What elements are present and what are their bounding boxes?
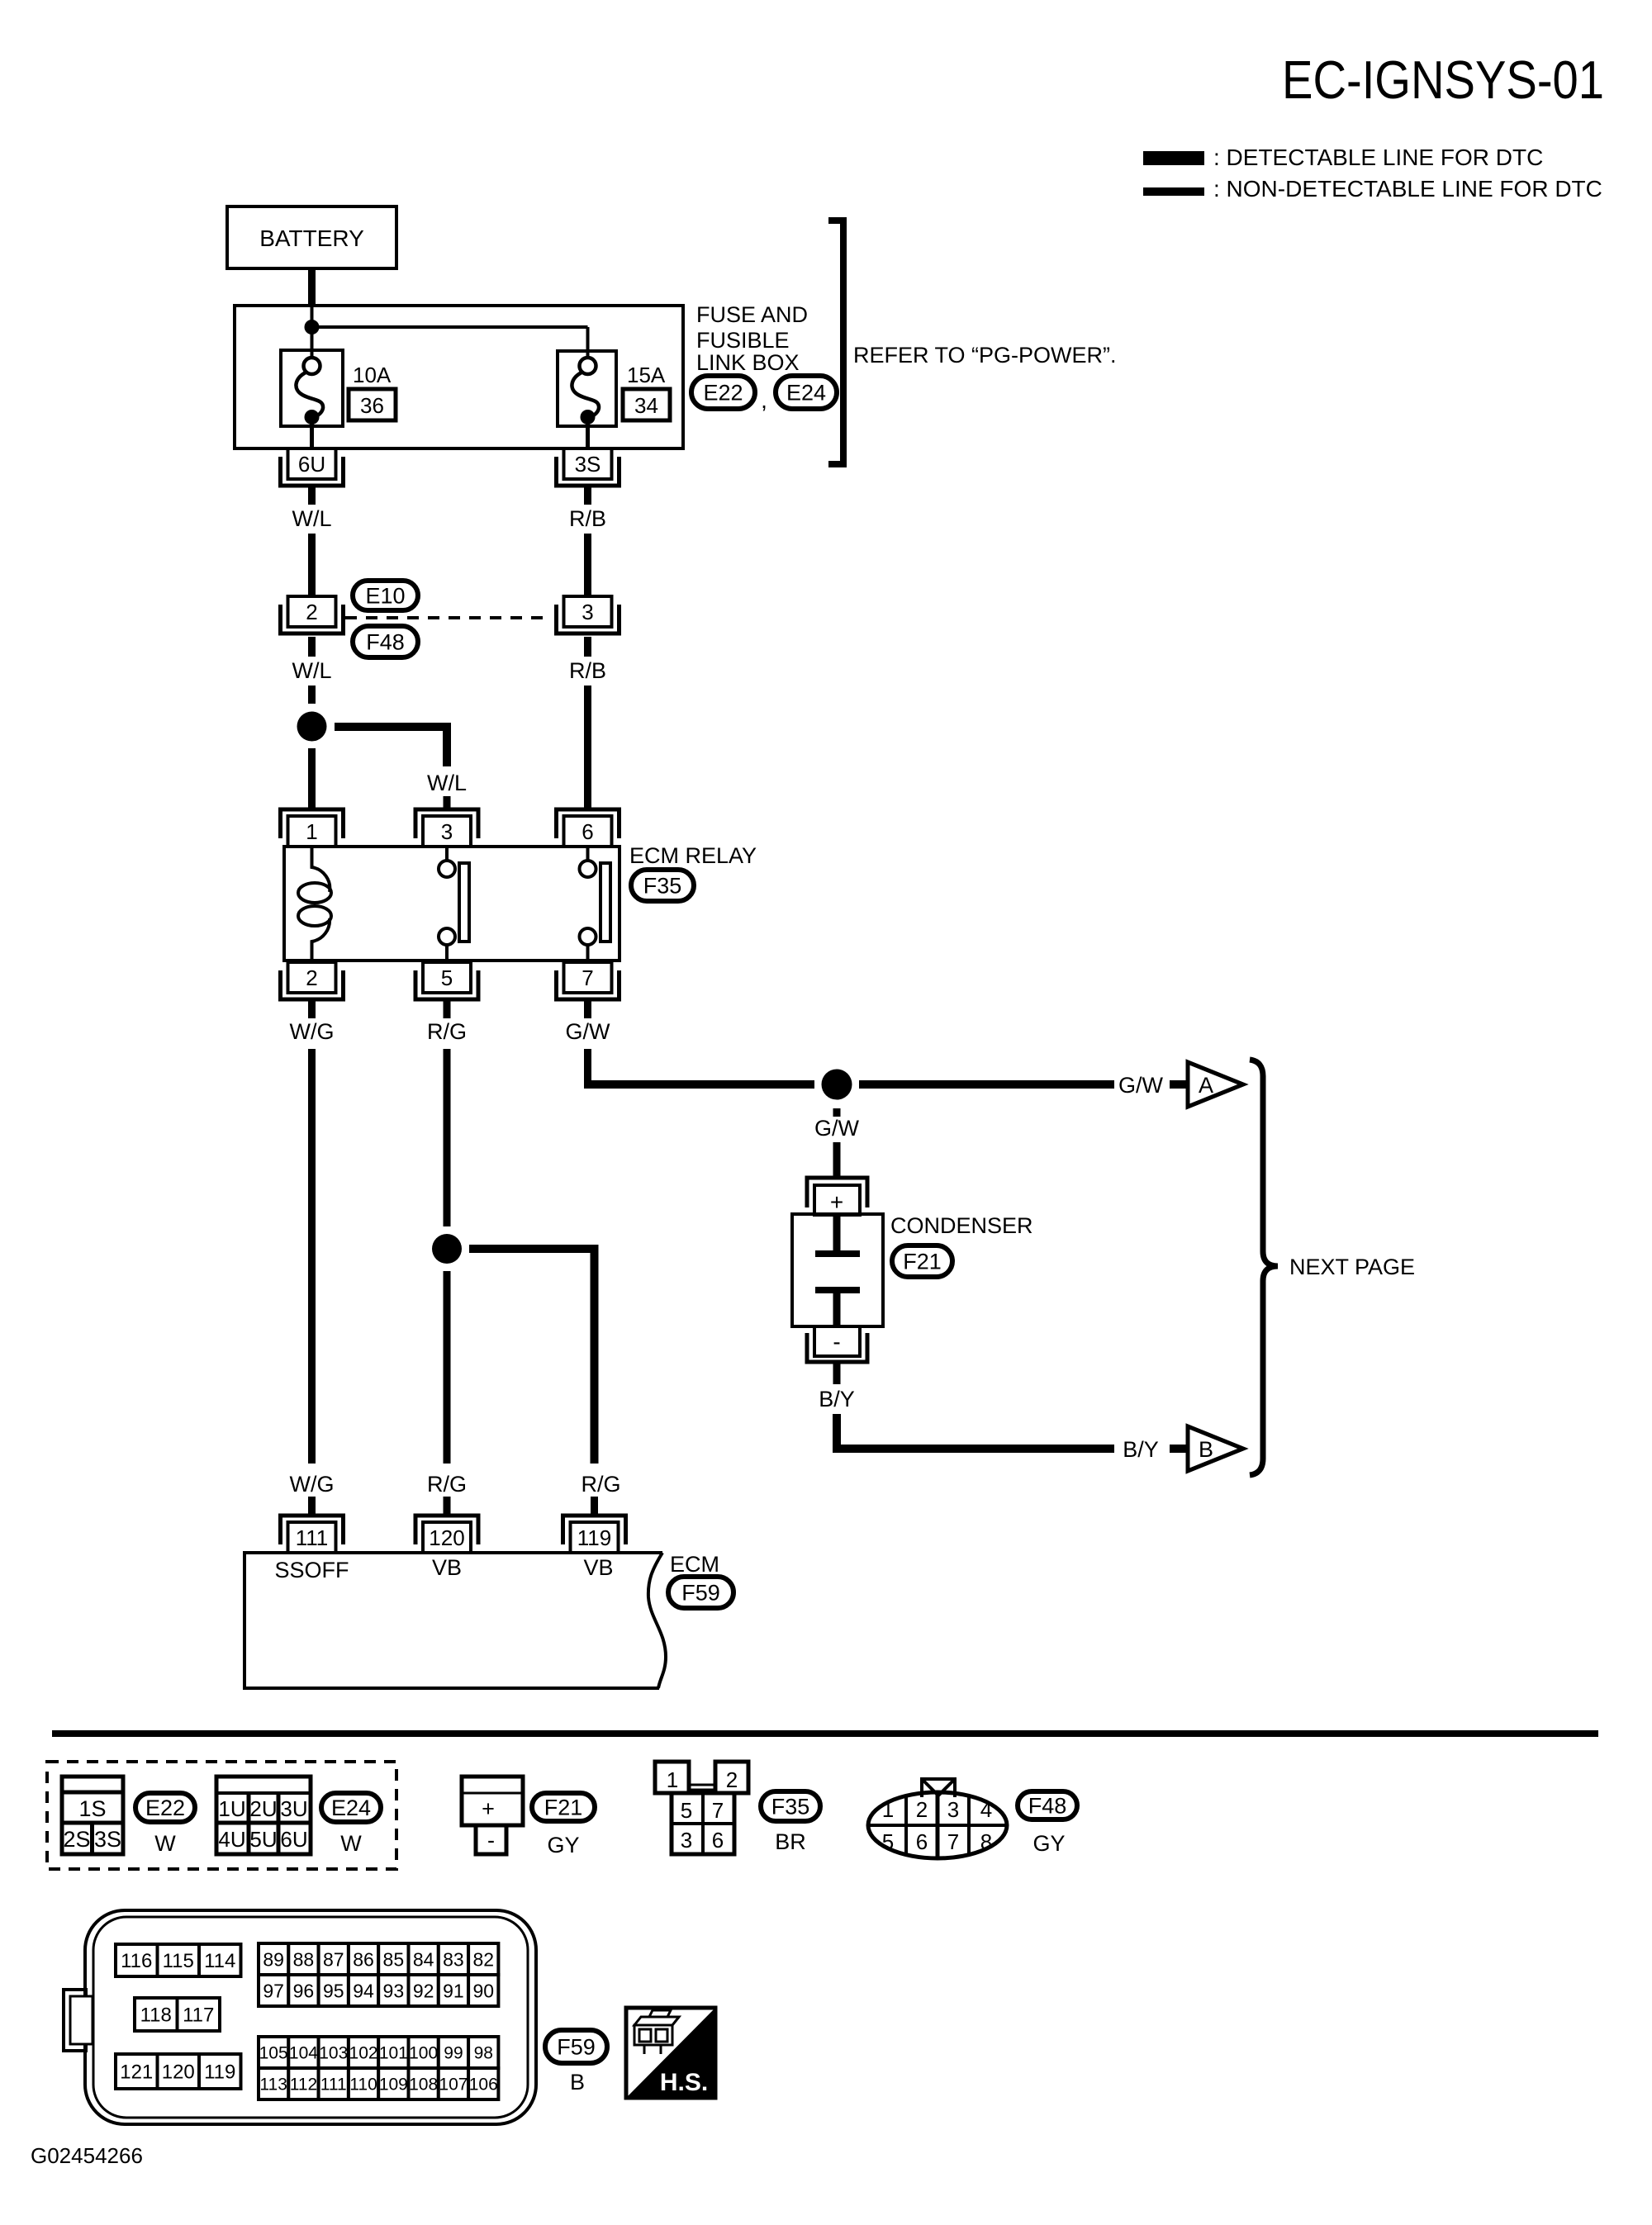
svg-text:108: 108 (409, 2076, 438, 2095)
dashed connector link line (345, 616, 552, 619)
svg-text:W/L: W/L (427, 771, 467, 795)
wire 3S down (R/B) (584, 486, 591, 505)
svg-text:W/G: W/G (290, 1019, 335, 1044)
svg-text:E10: E10 (365, 584, 405, 609)
ECM connector cells 105-98 (259, 2037, 288, 2068)
svg-text:112: 112 (290, 2076, 317, 2095)
svg-text:BATTERY: BATTERY (259, 225, 364, 251)
connector face E24 (216, 1777, 311, 1854)
condenser plus terminal (807, 1178, 867, 1207)
terminal 6U (281, 457, 344, 486)
svg-text:R/B: R/B (569, 658, 606, 683)
battery (227, 206, 396, 268)
connector face F35 (655, 1762, 689, 1793)
svg-text:2: 2 (916, 1797, 928, 1822)
svg-text:121: 121 (120, 2061, 153, 2084)
wire W/G long run to ECM (308, 1049, 316, 1464)
svg-text:FUSIBLE: FUSIBLE (696, 328, 790, 353)
svg-text:101: 101 (379, 2044, 408, 2063)
svg-text:: NON-DETECTABLE LINE FOR DTC: : NON-DETECTABLE LINE FOR DTC (1213, 176, 1602, 202)
dashed group box E22/E24 (47, 1762, 396, 1869)
svg-text:7: 7 (582, 965, 593, 990)
wire stub to arrow B (1170, 1445, 1188, 1453)
svg-text:107: 107 (439, 2076, 468, 2095)
svg-text:H.S.: H.S. (660, 2069, 708, 2096)
ECM connector cells 113-106 (259, 2068, 288, 2099)
svg-text:117: 117 (183, 2004, 214, 2027)
wire battery to fuse box (308, 270, 316, 307)
svg-text:102: 102 (349, 2044, 378, 2063)
svg-text:87: 87 (323, 1948, 344, 1970)
svg-text:10A: 10A (353, 363, 392, 387)
wire G/W junction down to condenser (833, 1108, 841, 1117)
connector pin 2 (E10/F48) (281, 605, 344, 633)
wire pin3 down (R/B) (584, 637, 591, 657)
svg-text:-: - (487, 1828, 495, 1853)
node battery feed junction (305, 320, 320, 334)
svg-text:84: 84 (413, 1948, 434, 1970)
label fuse number 34 (623, 389, 670, 420)
connector ref E24 (776, 376, 837, 409)
fuse and fusible link box E22/E24 (235, 306, 683, 448)
connector ref F35 (631, 870, 694, 901)
wire pin2 down (W/G) (308, 1000, 316, 1018)
wire junction down to fuse 36 (311, 307, 314, 360)
svg-text:1: 1 (882, 1797, 894, 1822)
svg-text:1U: 1U (218, 1796, 245, 1821)
svg-text:119: 119 (204, 2061, 235, 2084)
svg-text:113: 113 (259, 2076, 287, 2095)
relay switch contact 6-7 (586, 847, 590, 861)
svg-text:+: + (482, 1796, 495, 1821)
connector face F48 (868, 1792, 1007, 1858)
svg-text:99: 99 (444, 2044, 463, 2063)
wire pin5 down (R/G) (444, 1000, 451, 1018)
svg-text:CONDENSER: CONDENSER (890, 1213, 1033, 1238)
ECM connector cells 89-82 (259, 1943, 288, 1975)
svg-text:111: 111 (320, 2076, 347, 2095)
svg-text:2: 2 (726, 1767, 738, 1792)
svg-text:110: 110 (349, 2076, 377, 2095)
legend detectable line swatch (1143, 151, 1204, 165)
svg-text:E22: E22 (145, 1796, 185, 1820)
svg-text:111: 111 (296, 1525, 329, 1550)
svg-text:F21: F21 (544, 1796, 583, 1820)
label fuse number 36 (349, 389, 396, 420)
wire R/B to relay pin 6 (584, 686, 591, 809)
svg-text:A: A (1199, 1073, 1213, 1098)
svg-text:+: + (830, 1189, 843, 1215)
svg-text:G/W: G/W (566, 1019, 611, 1044)
wire R/G to junction (444, 1049, 451, 1226)
svg-text:F35: F35 (771, 1795, 810, 1819)
wire stub to arrow A (1170, 1080, 1188, 1089)
condenser F21 body (792, 1214, 883, 1326)
connector ref F48 (353, 626, 418, 657)
wire fuse 36 to terminal 6U (310, 424, 314, 450)
svg-text:2S: 2S (63, 1827, 90, 1852)
svg-text:115: 115 (163, 1950, 194, 1972)
wire pin7 down (G/W) (584, 1000, 591, 1018)
separator line (52, 1730, 1598, 1737)
svg-text:W/L: W/L (292, 506, 331, 531)
relay switch contact 3-5 (445, 847, 449, 861)
svg-text:6U: 6U (280, 1827, 307, 1852)
connector ref F59 (bottom) (545, 2030, 607, 2063)
wire 6U down (W/L) (308, 486, 316, 505)
ECM connector cells 116-114 (116, 1944, 158, 1976)
svg-text:B/Y: B/Y (819, 1387, 855, 1411)
svg-text:R/G: R/G (427, 1019, 467, 1044)
connector pin 3 (E10/F48) (557, 605, 619, 633)
svg-text:B: B (1199, 1437, 1213, 1462)
connector ref E24 (bottom) (321, 1793, 381, 1822)
svg-text:36: 36 (360, 393, 384, 418)
wire R/G stub to terminal 120 (444, 1497, 451, 1515)
svg-text:ECM: ECM (670, 1552, 719, 1577)
svg-text:116: 116 (121, 1950, 152, 1972)
svg-text:F48: F48 (1028, 1794, 1067, 1819)
ECM connector face outline (85, 1910, 536, 2124)
svg-text:LINK BOX: LINK BOX (696, 350, 800, 375)
connector ref F48 (bottom) (1018, 1791, 1077, 1819)
wire branch R/G to terminal 119 (469, 1249, 595, 1464)
relay pin 7 (557, 970, 619, 999)
svg-text:3: 3 (947, 1797, 959, 1822)
svg-text:103: 103 (319, 2044, 348, 2063)
svg-text:93: 93 (383, 1980, 405, 2001)
connector ref F21 (bottom) (532, 1793, 595, 1821)
svg-text:95: 95 (323, 1980, 344, 2001)
relay pin 3 (415, 809, 478, 838)
svg-text:120: 120 (429, 1525, 464, 1550)
svg-text:NEXT PAGE: NEXT PAGE (1289, 1255, 1415, 1279)
svg-text:REFER TO “PG-POWER”.: REFER TO “PG-POWER”. (853, 343, 1117, 368)
wire junction to 15A fuse (312, 325, 588, 329)
ECM relay body F35 (284, 847, 619, 961)
relay pin 1 (281, 809, 344, 838)
svg-text:34: 34 (634, 393, 658, 418)
svg-text:85: 85 (383, 1948, 405, 1970)
connector ref F35 (bottom) (761, 1791, 820, 1821)
svg-text:98: 98 (474, 2044, 493, 2063)
connector ref E10 (353, 581, 418, 610)
brace next page (1250, 1060, 1278, 1475)
svg-text:2: 2 (306, 965, 317, 990)
wire W/L to connector E10/F48 pin 2 (308, 534, 316, 596)
svg-text:F48: F48 (366, 630, 405, 655)
svg-text:6U: 6U (298, 452, 325, 477)
svg-text:5U: 5U (249, 1827, 277, 1852)
ECM connector cells 121-119 (116, 2054, 158, 2089)
connector ref F59 (668, 1577, 733, 1608)
svg-text:2: 2 (306, 600, 317, 624)
fuse 36 (10A) (281, 350, 343, 426)
svg-text:SSOFF: SSOFF (274, 1558, 349, 1582)
node G/W junction (822, 1070, 852, 1100)
svg-text:3U: 3U (280, 1796, 307, 1821)
ECM connector cells 97-90 (259, 1975, 288, 2006)
svg-text:3: 3 (681, 1828, 692, 1853)
svg-text:BR: BR (775, 1829, 806, 1854)
ECM terminal 119 (563, 1516, 626, 1544)
svg-text:7: 7 (947, 1829, 959, 1854)
wire pin2 down (W/L) (308, 637, 316, 657)
svg-text:8: 8 (980, 1829, 992, 1854)
relay pin 2 (281, 970, 344, 999)
svg-text:88: 88 (293, 1948, 315, 1970)
svg-text:15A: 15A (627, 363, 666, 387)
wire condenser down (B/Y) (833, 1362, 841, 1384)
wire junction to relay pin 1 (308, 748, 316, 809)
svg-text:3S: 3S (94, 1827, 121, 1852)
svg-text:VB: VB (583, 1555, 613, 1580)
svg-text:G02454266: G02454266 (31, 2143, 143, 2168)
wire R/B to connector E10/F48 pin 3 (584, 534, 591, 596)
svg-text:6: 6 (582, 819, 593, 844)
svg-text:97: 97 (263, 1980, 284, 2001)
connector ref E22 (691, 376, 755, 409)
svg-text:4: 4 (980, 1797, 992, 1822)
ECM connector tab (64, 1990, 86, 2051)
svg-text:94: 94 (353, 1980, 374, 2001)
svg-text:91: 91 (443, 1980, 464, 2001)
svg-text:B/Y: B/Y (1123, 1437, 1159, 1462)
connector face E22 (62, 1777, 123, 1854)
terminal 3S (557, 457, 619, 486)
svg-text:86: 86 (353, 1948, 374, 1970)
svg-text:92: 92 (413, 1980, 434, 2001)
svg-text:F59: F59 (681, 1581, 720, 1606)
relay pin 5 (415, 970, 478, 999)
svg-text:2U: 2U (249, 1796, 277, 1821)
H.S. icon connector drawing (634, 2017, 679, 2025)
svg-text:6: 6 (916, 1829, 928, 1854)
svg-text:1S: 1S (78, 1796, 106, 1821)
H.S. icon (626, 2008, 715, 2098)
svg-text:GY: GY (547, 1833, 579, 1857)
wire R/G junction to label (444, 1271, 451, 1464)
wire branch stub to pin 3 (444, 796, 451, 809)
svg-text:5: 5 (882, 1829, 894, 1854)
svg-text:120: 120 (162, 2061, 195, 2084)
svg-text:E24: E24 (331, 1796, 371, 1820)
ECM box F59 (244, 1553, 662, 1688)
connector ref F21 (892, 1245, 952, 1277)
svg-text:96: 96 (293, 1980, 315, 2001)
connector ref E22 (bottom) (135, 1793, 195, 1822)
svg-text:7: 7 (712, 1798, 724, 1823)
svg-text:G/W: G/W (814, 1116, 860, 1141)
condenser minus terminal (814, 1326, 860, 1356)
wire G/W horizontal to arrow A (584, 1080, 814, 1089)
svg-text:1: 1 (306, 819, 317, 844)
svg-text:106: 106 (469, 2076, 498, 2095)
ECM terminal 111 (281, 1516, 344, 1544)
svg-text:FUSE AND: FUSE AND (696, 302, 808, 327)
svg-text:100: 100 (409, 2044, 438, 2063)
svg-text:W: W (154, 1831, 176, 1856)
ECM connector cells 118-117 (135, 1998, 178, 2031)
svg-text:104: 104 (289, 2044, 318, 2063)
svg-text:VB: VB (432, 1555, 462, 1580)
svg-text:4U: 4U (218, 1827, 245, 1852)
fuse 34 (15A) (558, 351, 616, 426)
arrow A to next page (1188, 1062, 1243, 1107)
svg-text:3: 3 (441, 819, 453, 844)
svg-text:5: 5 (441, 965, 453, 990)
svg-text:109: 109 (379, 2076, 408, 2095)
svg-text:R/G: R/G (427, 1472, 467, 1497)
svg-text:E24: E24 (786, 381, 826, 406)
svg-text:: DETECTABLE LINE FOR DTC: : DETECTABLE LINE FOR DTC (1213, 145, 1543, 170)
svg-text:GY: GY (1032, 1831, 1065, 1856)
svg-text:R/G: R/G (581, 1472, 620, 1497)
relay pin 6 (557, 809, 619, 838)
svg-text:6: 6 (712, 1828, 724, 1853)
ECM terminal 120 (415, 1516, 478, 1544)
svg-text:114: 114 (204, 1950, 235, 1972)
relay coil (312, 847, 330, 892)
arrow B to next page (1188, 1426, 1243, 1471)
wire B/Y to arrow B (837, 1414, 1114, 1449)
wire W/G stub to terminal 111 (308, 1497, 316, 1515)
wire W/L to junction (308, 686, 316, 704)
svg-text:3: 3 (582, 600, 593, 624)
svg-text:-: - (833, 1329, 840, 1354)
wire G/W down to corner (584, 1049, 591, 1084)
node W/L junction (297, 712, 327, 742)
wire branch W/L to relay pin 3 (335, 727, 447, 766)
bracket refer to PG-POWER (828, 221, 843, 464)
connector face F21 (462, 1777, 523, 1825)
svg-text:W: W (340, 1831, 362, 1856)
svg-text:B: B (570, 2070, 585, 2095)
svg-text:E22: E22 (703, 381, 743, 406)
svg-text:G/W: G/W (1118, 1073, 1164, 1098)
svg-text:5: 5 (681, 1798, 692, 1823)
svg-text:105: 105 (259, 2044, 288, 2063)
svg-text:,: , (761, 387, 767, 413)
svg-text:90: 90 (472, 1980, 494, 2001)
svg-text:F21: F21 (903, 1250, 942, 1274)
svg-text:83: 83 (443, 1948, 464, 1970)
svg-text:F59: F59 (557, 2035, 596, 2060)
svg-text:R/B: R/B (569, 506, 606, 531)
node R/G junction (432, 1234, 462, 1264)
wire branch stub to terminal 119 (591, 1497, 598, 1515)
svg-text:W/G: W/G (290, 1472, 335, 1497)
svg-text:118: 118 (140, 2004, 172, 2027)
svg-text:3S: 3S (575, 452, 601, 477)
svg-text:EC-IGNSYS-01: EC-IGNSYS-01 (1282, 50, 1604, 110)
svg-text:W/L: W/L (292, 658, 331, 683)
svg-text:89: 89 (263, 1948, 284, 1970)
svg-text:82: 82 (472, 1948, 494, 1970)
legend non-detectable line swatch (1143, 187, 1204, 196)
svg-text:119: 119 (577, 1525, 611, 1550)
svg-text:1: 1 (667, 1767, 678, 1792)
svg-text:F35: F35 (643, 874, 682, 899)
svg-text:ECM RELAY: ECM RELAY (629, 843, 757, 868)
wire fuse 34 to terminal 3S (586, 424, 590, 450)
